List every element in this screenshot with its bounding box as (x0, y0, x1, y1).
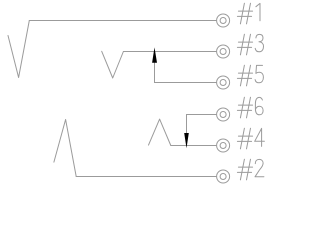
wire to terminal 3 (123, 51, 216, 53)
terminal pin 5 (217, 76, 230, 89)
actuator arrow up (points to wire 3) (152, 47, 157, 62)
terminal pin 6 (217, 108, 230, 121)
label #6 (237, 97, 263, 118)
movable contact blade pole D (large peak) (54, 120, 76, 177)
movable contact blade pole A (large V) (8, 21, 29, 78)
label #3 (237, 34, 263, 55)
wire to terminal 4 (171, 145, 217, 147)
movable contact blade pole C (small peak) (149, 119, 171, 145)
label #2 (237, 159, 264, 180)
terminal pin 1 (217, 14, 230, 27)
wire to terminal 5 (155, 82, 217, 84)
wire to terminal 6 (187, 114, 217, 116)
label #4 (237, 128, 264, 149)
actuator arrow down (points to wire 4) (184, 133, 189, 148)
terminal pin 2 (217, 170, 230, 183)
wire vertical link 3-5 (154, 52, 156, 83)
wire to terminal 1 (29, 20, 216, 22)
wire to terminal 2 (76, 176, 216, 178)
label #5 (237, 65, 263, 86)
label #1 (237, 3, 260, 24)
wire vertical link 6-4 (186, 115, 188, 146)
movable contact blade pole B (small V) (102, 51, 124, 78)
terminal pin 4 (217, 139, 230, 152)
terminal pin 3 (217, 45, 230, 58)
